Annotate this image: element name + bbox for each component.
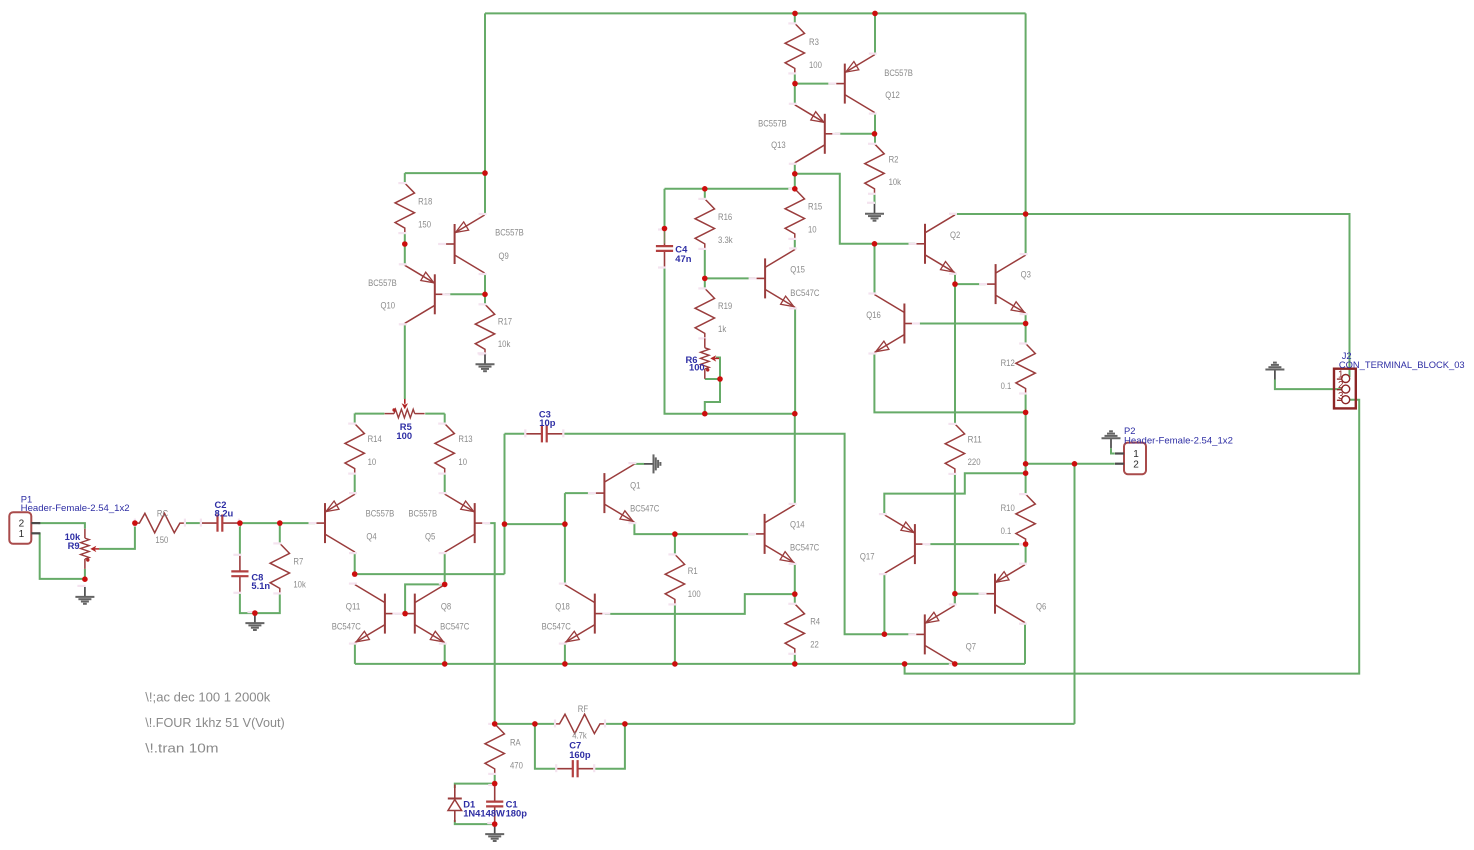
svg-text:\!;ac dec 100 1 2000k: \!;ac dec 100 1 2000k [145,691,271,705]
svg-text:5.1n: 5.1n [251,580,270,591]
svg-text:R7: R7 [293,557,303,567]
svg-text:150: 150 [155,535,168,545]
svg-text:Header-Female-2.54_1x2: Header-Female-2.54_1x2 [21,502,130,513]
svg-text:Q3: Q3 [1021,270,1031,280]
svg-text:BC547C: BC547C [332,622,361,632]
svg-text:150: 150 [418,219,431,229]
svg-text:R13: R13 [458,434,472,444]
svg-text:Q8: Q8 [441,602,451,612]
svg-text:R11: R11 [968,434,982,444]
svg-text:1N4148W: 1N4148W [463,807,505,818]
svg-text:2: 2 [1338,380,1343,391]
svg-text:BC557B: BC557B [366,509,395,519]
svg-text:Q11: Q11 [346,602,361,612]
svg-text:Q14: Q14 [790,520,805,530]
svg-text:160p: 160p [569,749,591,760]
svg-text:BC547C: BC547C [790,288,819,298]
svg-text:Q18: Q18 [555,602,570,612]
svg-text:47n: 47n [675,253,691,264]
svg-text:BC547C: BC547C [440,622,469,632]
svg-text:BC547C: BC547C [630,504,659,514]
svg-text:R10: R10 [1001,503,1015,513]
svg-text:0.1: 0.1 [1001,381,1012,391]
svg-text:1: 1 [1338,370,1343,381]
svg-text:\!.tran 10m: \!.tran 10m [145,741,218,755]
svg-text:CON_TERMINAL_BLOCK_03: CON_TERMINAL_BLOCK_03 [1339,359,1465,370]
svg-text:180p: 180p [506,807,528,818]
svg-text:BC557B: BC557B [408,509,437,519]
svg-text:BC557B: BC557B [495,228,524,238]
svg-text:10: 10 [808,224,817,234]
svg-text:220: 220 [968,457,981,467]
svg-text:R19: R19 [718,301,732,311]
svg-text:R9: R9 [68,540,80,551]
svg-text:R16: R16 [718,212,732,222]
svg-text:470: 470 [510,760,523,770]
svg-text:BC547C: BC547C [790,543,819,553]
svg-text:Q6: Q6 [1036,602,1046,612]
svg-text:Q15: Q15 [790,265,805,275]
svg-text:Q5: Q5 [425,531,435,541]
svg-text:2: 2 [1133,459,1139,470]
svg-text:R15: R15 [808,202,822,212]
svg-text:Q7: Q7 [966,641,976,651]
svg-text:R2: R2 [889,154,899,164]
svg-text:Q1: Q1 [630,481,640,491]
svg-text:100: 100 [689,362,705,373]
svg-text:1: 1 [19,529,25,540]
svg-text:22: 22 [810,639,819,649]
svg-text:100: 100 [688,589,701,599]
svg-text:10: 10 [458,457,467,467]
svg-text:R18: R18 [418,197,432,207]
svg-text:R14: R14 [368,434,382,444]
svg-text:3.3k: 3.3k [718,235,733,245]
svg-text:RA: RA [510,738,521,748]
svg-text:R1: R1 [688,566,698,576]
svg-text:100: 100 [396,430,412,441]
svg-text:Q12: Q12 [885,90,900,100]
svg-text:Q4: Q4 [366,531,376,541]
svg-text:10k: 10k [889,177,902,187]
svg-text:Q2: Q2 [950,230,960,240]
svg-text:Header-Female-2.54_1x2: Header-Female-2.54_1x2 [1124,434,1233,445]
svg-text:Q10: Q10 [381,301,396,311]
svg-text:8.2u: 8.2u [215,508,234,519]
svg-text:Q13: Q13 [771,140,786,150]
svg-text:1k: 1k [718,324,726,334]
svg-text:Q16: Q16 [866,310,881,320]
svg-text:RF: RF [578,704,589,714]
svg-text:R17: R17 [498,316,512,326]
svg-text:0.1: 0.1 [1001,526,1012,536]
svg-text:Q9: Q9 [499,251,509,261]
svg-text:Q17: Q17 [860,552,875,562]
svg-text:10p: 10p [539,417,555,428]
svg-text:\!.FOUR 1khz 51 V(Vout): \!.FOUR 1khz 51 V(Vout) [145,716,284,730]
svg-text:10: 10 [368,457,377,467]
svg-text:R4: R4 [810,617,820,627]
svg-text:BC557B: BC557B [368,278,397,288]
svg-text:10k: 10k [498,339,511,349]
svg-text:BC557B: BC557B [758,118,787,128]
svg-text:BC557B: BC557B [884,68,913,78]
svg-text:BC547C: BC547C [542,622,571,632]
svg-text:R3: R3 [809,37,819,47]
svg-text:3: 3 [1338,391,1344,402]
svg-text:100: 100 [809,60,822,70]
svg-text:R12: R12 [1001,358,1015,368]
svg-text:RC: RC [157,509,168,519]
svg-text:10k: 10k [293,580,306,590]
